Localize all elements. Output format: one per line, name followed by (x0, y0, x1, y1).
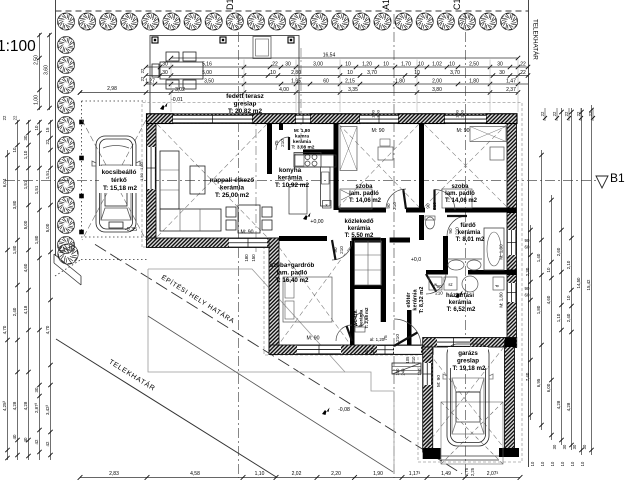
outer wall: haztartasi bottom / garage top (423, 338, 517, 348)
svg-text:30: 30 (497, 62, 503, 68)
svg-text:5,00: 5,00 (23, 220, 28, 229)
svg-text:1,20: 1,20 (362, 62, 372, 68)
svg-text:30: 30 (552, 444, 557, 449)
svg-text:1,49: 1,49 (441, 471, 451, 477)
door szoba+gardrob (332, 240, 352, 260)
svg-text:M: 90: M: 90 (436, 375, 442, 387)
hallway bottom wall (279, 236, 327, 241)
svg-text:4,60: 4,60 (546, 295, 551, 304)
garage bottom corner blocks (423, 448, 441, 459)
svg-text:22: 22 (13, 115, 18, 120)
svg-text:nappali-étkező: nappali-étkező (210, 177, 254, 184)
kitchen worktop (294, 155, 336, 167)
svg-text:10: 10 (12, 147, 17, 152)
window: eloter bottom (377, 346, 393, 355)
svg-text:D1: D1 (225, 0, 235, 10)
svg-text:T: 10,92 m2: T: 10,92 m2 (275, 182, 310, 189)
svg-text:22: 22 (272, 62, 278, 68)
svg-text:90: 90 (448, 228, 453, 234)
svg-text:40: 40 (23, 437, 28, 442)
path edge solid diagonal (148, 316, 393, 472)
gardrob bed (283, 277, 332, 322)
svg-text:kerámia: kerámia (220, 185, 245, 192)
outer wall: top (147, 114, 518, 124)
svg-text:M: 1,80: M: 1,80 (294, 128, 311, 134)
svg-text:22: 22 (140, 68, 145, 73)
svg-text:A1: A1 (381, 0, 391, 10)
svg-text:10: 10 (560, 461, 565, 466)
svg-text:22: 22 (520, 62, 526, 68)
svg-text:60: 60 (323, 79, 329, 85)
svg-text:1:100: 1:100 (0, 38, 36, 55)
svg-text:22: 22 (520, 70, 526, 76)
wall szoba1/szoba2 (419, 124, 424, 210)
svg-text:-0,35: -0,35 (125, 227, 137, 233)
svg-text:10: 10 (383, 62, 389, 68)
svg-text:2,98: 2,98 (107, 86, 117, 92)
svg-text:térkő: térkő (111, 177, 127, 184)
svg-text:5,16: 5,16 (202, 62, 212, 68)
svg-text:B1: B1 (610, 171, 625, 185)
svg-text:1,51: 1,51 (23, 180, 28, 189)
outer wall: right upper (507, 116, 517, 348)
svg-text:22: 22 (140, 76, 145, 81)
door haztartasi (426, 274, 446, 294)
right wall junction caps (507, 208, 517, 214)
window: szoba+gardrob bottom (297, 345, 341, 354)
terrace grill (253, 37, 271, 59)
svg-text:1,90: 1,90 (373, 471, 383, 477)
svg-text:előtér: előtér (406, 292, 412, 308)
svg-text:2,10: 2,10 (566, 260, 571, 269)
svg-text:1,02: 1,02 (432, 62, 442, 68)
eloter bottom right wall piece (407, 310, 412, 345)
svg-text:4,70: 4,70 (2, 325, 7, 334)
svg-text:22: 22 (564, 111, 569, 116)
svg-text:szoba+gardrób: szoba+gardrób (270, 262, 315, 269)
axis line kamra (300, 48, 302, 150)
svg-text:42: 42 (34, 439, 39, 444)
svg-text:2,50: 2,50 (469, 62, 479, 68)
svg-text:4,00: 4,00 (279, 87, 289, 93)
svg-text:3,50: 3,50 (204, 79, 214, 85)
svg-text:4,70: 4,70 (45, 325, 50, 334)
svg-text:1,47: 1,47 (506, 79, 516, 85)
wall kitchen/szoba1 (334, 124, 339, 210)
B1 marker triangle (596, 176, 608, 188)
window: haztartasi bottom (437, 338, 470, 347)
svg-text:4,28: 4,28 (566, 402, 571, 411)
furdo bottom wall (426, 270, 448, 275)
svg-text:fürdő: fürdő (460, 223, 476, 229)
svg-text:240: 240 (401, 368, 406, 376)
car in garage (443, 344, 493, 446)
svg-text:2,07³: 2,07³ (487, 471, 499, 477)
window: haztartasi right (507, 283, 516, 302)
svg-text:42: 42 (45, 441, 50, 446)
outer wall: left (147, 116, 157, 248)
svg-text:10: 10 (449, 62, 455, 68)
szoba1 bed (340, 189, 372, 209)
svg-text:greslap: greslap (234, 101, 257, 108)
svg-text:kocsibeálló: kocsibeálló (102, 169, 137, 176)
svg-text:4,28: 4,28 (556, 400, 561, 409)
svg-text:TELEKHATÁR: TELEKHATÁR (532, 19, 541, 60)
svg-text:1,00: 1,00 (34, 95, 40, 105)
svg-text:T: 3,08 m2: T: 3,08 m2 (292, 144, 315, 150)
top wall solid segments (147, 114, 174, 124)
svg-text:10: 10 (347, 70, 353, 76)
svg-text:1,51: 1,51 (34, 185, 39, 194)
dining table (226, 205, 272, 233)
svg-text:szoba: szoba (355, 184, 373, 190)
kamra left jamb (279, 124, 283, 130)
svg-text:180: 180 (244, 254, 249, 262)
svg-text:1,50: 1,50 (139, 172, 144, 181)
entrance door (394, 319, 421, 346)
window: garage left (423, 363, 432, 385)
furdo basins (448, 260, 464, 270)
svg-text:T: 19,18 m2: T: 19,18 m2 (452, 365, 486, 372)
svg-text:M: 1,80: M: 1,80 (499, 292, 504, 308)
axis line living (255, 112, 257, 252)
bottom dimension chain (78, 471, 523, 480)
svg-text:kerámia: kerámia (359, 309, 364, 326)
svg-text:M: 90: M: 90 (372, 128, 385, 134)
svg-text:garázs: garázs (458, 350, 478, 357)
svg-text:T: 15,18 m2: T: 15,18 m2 (103, 185, 138, 192)
svg-text:30: 30 (582, 444, 587, 449)
svg-text:2,75: 2,75 (464, 467, 469, 476)
door kamra (276, 137, 289, 150)
svg-text:30: 30 (285, 62, 291, 68)
living coffee table (190, 166, 205, 194)
svg-text:3,80: 3,80 (432, 87, 442, 93)
svg-text:210: 210 (411, 356, 416, 364)
closet/eloter divider wall (381, 238, 386, 322)
window: szoba1 top (360, 115, 398, 123)
door szoba2 (435, 190, 456, 211)
svg-text:1,80: 1,80 (395, 79, 405, 85)
living bottom sliding door (229, 239, 267, 248)
svg-text:konyha: konyha (279, 167, 302, 174)
svg-text:150: 150 (395, 368, 400, 376)
svg-text:2,40: 2,40 (12, 307, 17, 316)
svg-text:greslap: greslap (457, 358, 479, 365)
svg-text:4,25³: 4,25³ (2, 400, 7, 411)
svg-text:lam. padló: lam. padló (277, 270, 308, 277)
outer wall: garage right (505, 340, 515, 450)
outer wall: bottom band (szoba+gardrob / eloter) (269, 345, 433, 355)
svg-text:kamra: kamra (295, 134, 309, 140)
roof eave outline (142, 103, 522, 463)
svg-text:10: 10 (418, 62, 424, 68)
gardrob closet (355, 241, 382, 285)
haztartasi sink (462, 276, 478, 292)
svg-text:közlekedő: közlekedő (344, 219, 373, 225)
svg-text:14,50: 14,50 (576, 277, 581, 289)
svg-text:3,00: 3,00 (313, 62, 323, 68)
svg-text:2,00: 2,00 (432, 79, 442, 85)
svg-text:150: 150 (417, 368, 422, 376)
svg-text:40: 40 (12, 434, 17, 439)
svg-text:2,30: 2,30 (525, 267, 530, 276)
window: living top (173, 115, 252, 123)
svg-text:3,70: 3,70 (450, 70, 460, 76)
svg-text:2,60: 2,60 (556, 247, 561, 256)
svg-text:22: 22 (552, 111, 557, 116)
svg-text:3,02: 3,02 (175, 87, 185, 93)
outer wall: living bottom (147, 238, 280, 248)
svg-text:1,17³: 1,17³ (409, 471, 421, 477)
svg-text:10: 10 (566, 295, 571, 300)
top plot boundary (dashed) (56, 10, 529, 12)
entrance door gap (394, 345, 421, 354)
furdo left wall (419, 215, 424, 240)
entrance steps (392, 363, 421, 374)
svg-text:T: 8,01 m2: T: 8,01 m2 (456, 237, 485, 243)
plot corner cut (double line) (54, 254, 81, 276)
eloter/furdo wall (443, 236, 448, 272)
living sofa L (160, 151, 221, 231)
section line D1 (238, 14, 240, 478)
garage label (448, 347, 488, 368)
svg-text:105: 105 (405, 356, 410, 364)
svg-text:60: 60 (525, 245, 530, 250)
svg-text:2,83: 2,83 (109, 471, 119, 477)
svg-text:1,27: 1,27 (145, 79, 155, 85)
svg-text:90: 90 (386, 203, 391, 209)
svg-text:30: 30 (162, 62, 168, 68)
terrace table and chairs (152, 52, 203, 89)
kitchen stove (294, 153, 321, 168)
svg-text:2,20: 2,20 (331, 471, 341, 477)
svg-text:lam. padló: lam. padló (349, 191, 379, 197)
kamra bottom wall (303, 149, 339, 154)
svg-text:4,60: 4,60 (23, 263, 28, 272)
svg-text:10: 10 (530, 461, 535, 466)
svg-text:3,42³: 3,42³ (45, 404, 50, 415)
svg-text:3,80: 3,80 (12, 200, 17, 209)
svg-text:210: 210 (280, 139, 285, 147)
svg-text:150: 150 (251, 254, 256, 262)
svg-text:T: 16,40 m2: T: 16,40 m2 (275, 277, 309, 284)
svg-text:1,40: 1,40 (536, 253, 541, 262)
svg-text:15,42: 15,42 (586, 279, 591, 291)
svg-text:M: 90: M: 90 (457, 128, 470, 134)
svg-text:kerámia: kerámia (348, 226, 371, 232)
svg-text:6,95: 6,95 (536, 378, 541, 387)
garage clearance dotted rect (441, 402, 503, 464)
svg-text:2,50: 2,50 (34, 55, 40, 65)
svg-text:T: 5,50 m2: T: 5,50 m2 (345, 233, 374, 239)
car in parking (top view) (92, 136, 140, 232)
svg-text:6,04: 6,04 (2, 178, 7, 187)
svg-text:+0,00: +0,00 (310, 219, 323, 225)
svg-text:22: 22 (45, 139, 50, 144)
parking dashed diagonals (82, 120, 146, 240)
svg-text:10: 10 (546, 267, 551, 272)
svg-text:22: 22 (540, 111, 545, 116)
svg-text:30: 30 (499, 70, 505, 76)
svg-text:3,60: 3,60 (44, 65, 50, 75)
svg-text:-0,08: -0,08 (338, 407, 350, 413)
svg-text:fedett terasz: fedett terasz (226, 93, 264, 100)
svg-text:30: 30 (562, 444, 567, 449)
bedroom bottom wall with door gaps (339, 208, 387, 213)
svg-text:90: 90 (333, 247, 338, 253)
svg-text:sz: sz (448, 282, 452, 287)
svg-text:T: 25,00 m2: T: 25,00 m2 (215, 192, 250, 199)
svg-text:-0,01: -0,01 (171, 97, 183, 103)
window: living left wall (147, 147, 156, 189)
svg-text:4,28: 4,28 (23, 401, 28, 410)
window: kamra top (296, 115, 310, 123)
svg-text:10: 10 (580, 461, 585, 466)
kitchen island (289, 185, 307, 215)
svg-text:4,28: 4,28 (12, 401, 17, 410)
svg-text:15: 15 (45, 127, 50, 132)
window: szoba2 top (445, 115, 486, 123)
svg-text:210: 210 (339, 246, 344, 254)
kitchen small box (323, 201, 332, 209)
svg-text:5,00: 5,00 (45, 223, 50, 232)
svg-text:1,80: 1,80 (34, 235, 39, 244)
parking dotted edge with posts (81, 101, 83, 233)
svg-text:210: 210 (432, 202, 437, 210)
svg-text:210: 210 (395, 334, 401, 342)
svg-text:1,51: 1,51 (45, 170, 50, 179)
svg-text:T: 8,32 m2: T: 8,32 m2 (419, 287, 425, 314)
svg-text:2,02: 2,02 (292, 471, 302, 477)
svg-text:10: 10 (570, 461, 575, 466)
svg-text:30: 30 (23, 135, 28, 140)
svg-text:al: 1,20: al: 1,20 (370, 337, 385, 342)
driveway dotted lines (81, 236, 147, 238)
svg-text:22: 22 (588, 111, 593, 116)
svg-text:10: 10 (270, 70, 276, 76)
svg-text:22: 22 (2, 115, 7, 120)
door szoba1 (386, 189, 406, 209)
svg-text:1,10: 1,10 (556, 313, 561, 322)
szoba1 wardrobe (340, 127, 357, 171)
svg-text:3,35: 3,35 (348, 87, 358, 93)
left dimension chains (2, 33, 53, 460)
svg-text:1,80: 1,80 (469, 79, 479, 85)
svg-text:2,37: 2,37 (506, 87, 516, 93)
szoba2 bed (442, 189, 472, 208)
svg-text:kerámia: kerámia (413, 289, 419, 311)
svg-text:2,40: 2,40 (566, 313, 571, 322)
svg-text:1,80: 1,80 (536, 305, 541, 314)
svg-text:T: 6,52 m2: T: 6,52 m2 (447, 307, 476, 313)
svg-text:2,15: 2,15 (345, 79, 355, 85)
svg-text:4,58: 4,58 (190, 471, 200, 477)
svg-text:10: 10 (345, 62, 351, 68)
szoba2 wardrobe (470, 127, 506, 142)
section line A1 (393, 14, 395, 478)
washer dryer (429, 277, 442, 290)
svg-text:120: 120 (370, 348, 375, 356)
svg-text:90: 90 (436, 284, 442, 289)
svg-text:szoba: szoba (451, 184, 469, 190)
svg-text:16,54: 16,54 (323, 53, 336, 59)
svg-text:1,50: 1,50 (460, 109, 465, 118)
door furdo (447, 216, 467, 236)
svg-text:WC-szh.: WC-szh. (353, 309, 358, 326)
wc top wall (350, 285, 383, 289)
svg-text:1,80: 1,80 (12, 245, 17, 254)
svg-text:lam. padló: lam. padló (445, 191, 475, 197)
wall living/kitchen (267, 124, 272, 174)
svg-text:210: 210 (392, 202, 397, 210)
outer wall: szoba+gardrob left (269, 238, 279, 355)
svg-text:2,25: 2,25 (470, 467, 475, 476)
svg-text:4,18: 4,18 (23, 305, 28, 314)
tree row top (57, 13, 517, 30)
svg-text:5,00: 5,00 (202, 70, 212, 76)
svg-text:1,70: 1,70 (401, 62, 411, 68)
svg-text:1,80: 1,80 (139, 161, 144, 170)
right dimension chains (525, 105, 594, 466)
svg-text:T: 14,06 m2: T: 14,06 m2 (349, 198, 382, 204)
terrace posts (152, 37, 158, 43)
svg-text:T: 2,68 m2: T: 2,68 m2 (364, 307, 369, 329)
svg-text:2,87³: 2,87³ (34, 402, 39, 413)
svg-text:kerámia: kerámia (293, 139, 311, 145)
svg-text:90: 90 (525, 286, 530, 291)
svg-text:+0,0: +0,0 (411, 257, 421, 263)
door wc (336, 325, 352, 341)
furdo toilet (426, 217, 435, 229)
right plot boundary (528, 0, 530, 467)
svg-text:90: 90 (525, 238, 530, 243)
top dimension chains (78, 53, 530, 95)
building zone gray polygon (148, 269, 394, 470)
svg-text:6,00: 6,00 (546, 383, 551, 392)
room diagonals (157, 124, 507, 448)
bathtub (484, 228, 504, 270)
right top tick cluster (540, 108, 595, 121)
szoba2 desk (490, 147, 504, 160)
gardrob/eloter divider (350, 241, 355, 345)
EPITESI HELY HATARA dashed diagonal (95, 244, 462, 473)
terrace outline (150, 36, 299, 116)
outer wall: garage left (423, 347, 433, 452)
svg-text:30: 30 (162, 70, 168, 76)
svg-text:30: 30 (34, 387, 39, 392)
svg-text:C1: C1 (452, 0, 462, 10)
window: furdo right (507, 230, 516, 255)
svg-text:10: 10 (550, 461, 555, 466)
parking label (99, 166, 141, 193)
szoba1 desk (378, 147, 393, 160)
svg-text:1,10: 1,10 (23, 150, 28, 159)
svg-text:1,10: 1,10 (255, 471, 265, 477)
svg-text:90: 90 (426, 203, 431, 209)
svg-text:kerámia: kerámia (278, 175, 303, 182)
TELEKHATAR diagonal boundary (56, 339, 277, 478)
svg-text:75: 75 (274, 140, 279, 146)
svg-text:kerámia: kerámia (449, 300, 472, 306)
section line C1 (465, 14, 467, 478)
svg-text:M: 90: M: 90 (307, 336, 320, 342)
svg-text:60: 60 (364, 349, 369, 354)
left plot boundary (55, 0, 57, 256)
svg-text:T: 14,06 m2: T: 14,06 m2 (445, 198, 478, 204)
kitchen counter (321, 167, 331, 206)
section line B1 (horizontal) (5, 180, 597, 182)
